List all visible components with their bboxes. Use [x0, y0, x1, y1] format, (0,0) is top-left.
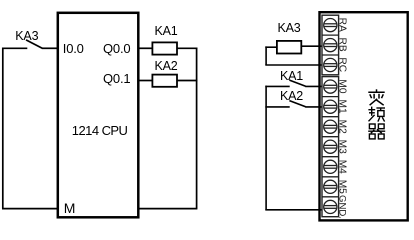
contact KA2 blade — [289, 101, 305, 107]
contact KA3 blade — [26, 40, 42, 48]
contact KA1 blade — [289, 80, 305, 86]
label Q0.0 — [103, 43, 130, 55]
wire left vertical from KA3 down — [2, 48, 4, 209]
relay coil KA2 — [152, 75, 177, 87]
wire coil KA1 to right bus — [177, 47, 197, 49]
label I0.0 — [63, 43, 84, 55]
svg-text:RB: RB — [336, 38, 347, 52]
terminal cell divider M5/GND — [322, 196, 339, 198]
terminal cell divider M4/M5 — [322, 176, 339, 178]
terminal screw RA — [324, 19, 337, 32]
wire right bus vertical — [196, 48, 198, 209]
svg-text:M3: M3 — [336, 140, 347, 154]
label 1214 CPU — [72, 125, 128, 137]
svg-text:M0: M0 — [336, 79, 347, 93]
label M — [64, 202, 75, 214]
svg-text:M1: M1 — [336, 100, 347, 114]
contact KA1 left wire — [265, 85, 289, 87]
contact KA3 right wire to I0.0 — [42, 47, 58, 49]
wire right bus bottom to PLC box — [139, 208, 198, 210]
wire coil KA2 to right bus — [177, 80, 197, 82]
VFD label 变 (stylised strokes) — [368, 89, 384, 105]
terminal cell divider RA/RB — [322, 34, 339, 36]
wire Q0.0 to coil KA1 — [139, 47, 153, 49]
terminal cell divider M3/M4 — [322, 156, 339, 158]
terminal screw GND — [324, 200, 337, 213]
contact KA1 right wire to M0 — [305, 85, 322, 87]
contact KA2 right wire to M1 — [305, 106, 322, 108]
terminal group M0..GND frame — [322, 77, 339, 217]
wire bottom left to M — [2, 208, 58, 210]
svg-text:M4: M4 — [336, 160, 347, 174]
svg-text:M2: M2 — [336, 120, 347, 134]
terminal screw M2 — [324, 120, 337, 133]
label KA3 (right coil) — [278, 22, 301, 34]
label KA1 (left coil) — [155, 25, 178, 37]
contact KA2 left wire — [265, 106, 289, 108]
terminal screw M1 — [324, 100, 337, 113]
wire coil KA3 right to RB — [302, 45, 322, 47]
contact KA3 left wire — [2, 47, 27, 49]
svg-text:RC: RC — [336, 57, 347, 72]
wire KA3 loop vertical — [265, 46, 267, 65]
VFD label 频 (stylised strokes) — [368, 107, 385, 122]
wire KA3 loop bottom to RC — [265, 64, 322, 66]
relay coil KA1 — [152, 42, 177, 54]
svg-text:RA: RA — [336, 18, 347, 32]
svg-text:GND.: GND. — [336, 195, 347, 219]
svg-text:M5: M5 — [336, 180, 347, 194]
label KA3 (left contact) — [15, 30, 38, 42]
terminal cell divider RB/RC — [322, 54, 339, 56]
terminal cell divider M1/M2 — [322, 116, 339, 118]
wire coil KA3 left stub — [265, 46, 276, 48]
label Q0.1 — [103, 73, 130, 85]
wire bottom to GND — [265, 209, 322, 211]
PLC box 1214 CPU — [58, 13, 139, 218]
VFD label 器 (stylised strokes) — [368, 124, 385, 139]
terminal cell divider M2/M3 — [322, 136, 339, 138]
label KA2 (left coil) — [155, 60, 178, 72]
terminal screw M4 — [324, 160, 337, 173]
terminal screw RB — [324, 39, 337, 52]
label KA2 (right contact) — [280, 90, 303, 102]
terminal screw M3 — [324, 140, 337, 153]
terminal cell divider M0/M1 — [322, 96, 339, 98]
label KA1 (right contact) — [280, 70, 303, 82]
VFD outer box — [320, 12, 408, 220]
terminal screw M5 — [324, 180, 337, 193]
wire left bus (right diagram) — [265, 86, 267, 210]
coil KA3 (right) — [277, 41, 301, 54]
terminal screw M0 — [324, 80, 337, 93]
terminal group RA RB RC frame — [322, 15, 339, 75]
wire Q0.1 to coil KA2 — [139, 80, 153, 82]
terminal screw RC — [324, 58, 337, 71]
